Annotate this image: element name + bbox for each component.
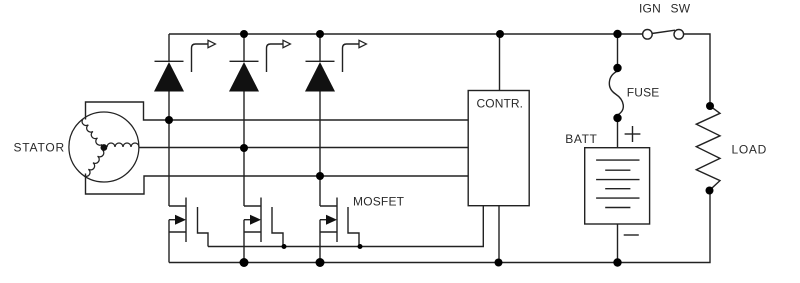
svg-text:STATOR: STATOR <box>14 141 65 155</box>
svg-text:MOSFET: MOSFET <box>353 195 405 209</box>
svg-text:CONTR.: CONTR. <box>477 97 524 111</box>
svg-text:LOAD: LOAD <box>732 143 767 157</box>
svg-text:IGN: IGN <box>639 2 661 16</box>
svg-text:FUSE: FUSE <box>627 86 660 100</box>
svg-text:SW: SW <box>671 2 691 16</box>
svg-text:BATT: BATT <box>565 132 597 146</box>
